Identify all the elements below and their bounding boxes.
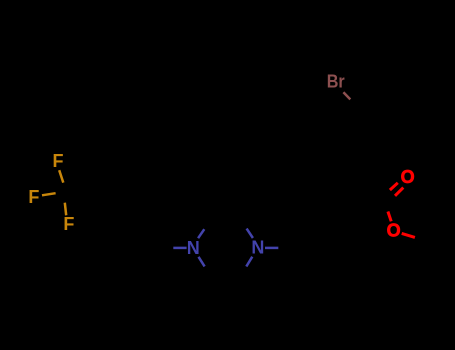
piperazine ring B carbon edges (black-on-black) bbox=[204, 219, 246, 275]
ester carbonyl carbon and black halves (black-on-black) bbox=[369, 182, 429, 242]
svg-text:Br: Br bbox=[327, 72, 345, 92]
blue half-bond N1 up-right bbox=[198, 229, 204, 238]
bond half C(F3) to F bottom (fluorine coloured) bbox=[65, 203, 66, 216]
black half of ring A to N1 bond bbox=[160, 247, 174, 249]
benzene ring A (trifluoromethylphenyl, carbon skeleton, black-on-black) bbox=[94, 219, 160, 276]
C=O double bond, oxygen coloured halves bbox=[390, 183, 398, 190]
bond half C(F3) to F left (fluorine coloured) bbox=[42, 193, 56, 195]
blue half-bond N1 down-right bbox=[199, 257, 205, 267]
bromine coloured half-bond from Br down-right bbox=[343, 92, 350, 99]
blue half-bond N2 down-left bbox=[246, 257, 252, 267]
blue half-bond N2 up-left bbox=[247, 229, 253, 238]
C-O single bond, oxygen coloured half bbox=[388, 212, 391, 222]
black half of N2 to ring C bond bbox=[278, 247, 290, 249]
bond half C(F3) to F top (fluorine coloured) bbox=[59, 170, 63, 182]
svg-text:O: O bbox=[387, 221, 401, 241]
blue half-bond N2 to right bbox=[265, 247, 278, 250]
svg-text:O: O bbox=[401, 167, 415, 187]
svg-text:F: F bbox=[53, 151, 64, 171]
svg-text:N: N bbox=[251, 238, 264, 258]
benzene ring C (bromo/ester ring, black-on-black) bbox=[290, 99, 369, 248]
svg-text:F: F bbox=[63, 214, 74, 234]
O-CH3 bond, oxygen coloured half bbox=[402, 233, 415, 237]
blue half of ring A to N1 bond bbox=[173, 247, 186, 250]
CF3 carbon C0 and black bond halves to F atoms bbox=[56, 183, 111, 219]
svg-text:N: N bbox=[187, 238, 200, 258]
svg-text:F: F bbox=[28, 187, 39, 207]
